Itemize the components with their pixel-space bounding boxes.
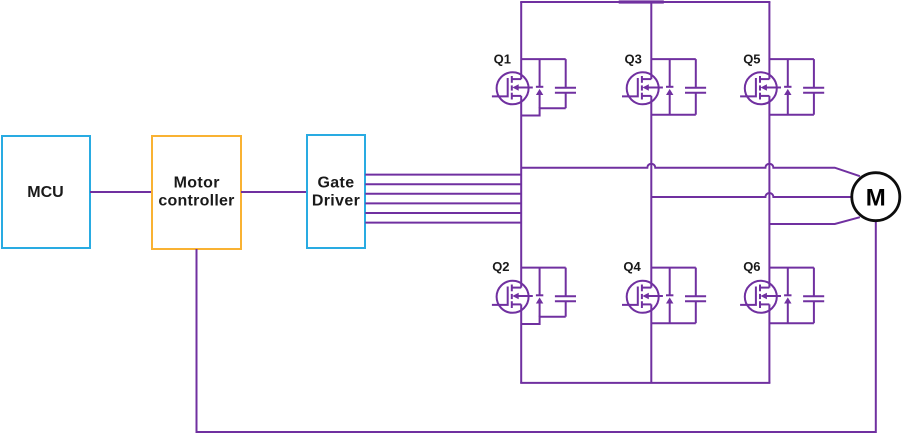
block MCU <box>2 136 90 248</box>
wire: Q2 cell bottom rail <box>521 317 566 324</box>
wire: half-bridge A vertical bus (middle, phase node A) <box>520 96 522 288</box>
svg-text:M: M <box>866 184 886 211</box>
wire Motor controller to Gate Driver <box>241 191 307 193</box>
wire: Q3 cell top rail <box>651 58 696 60</box>
svg-text:Gate: Gate <box>318 174 355 191</box>
body diode of Q3 <box>666 59 673 115</box>
body diode of Q4 <box>666 268 673 324</box>
wire: gate drive line 1 <box>365 174 521 176</box>
svg-text:Q4: Q4 <box>623 259 641 274</box>
block Motor controller <box>152 136 241 249</box>
capacitor across Q6 <box>803 268 824 324</box>
svg-text:Q1: Q1 <box>494 52 511 67</box>
svg-text:Q5: Q5 <box>743 51 760 66</box>
capacitor across Q4 <box>685 268 706 324</box>
block Gate Driver <box>307 135 365 248</box>
wire MCU to Motor controller <box>90 191 152 193</box>
capacitor across Q3 <box>685 59 706 115</box>
wire: gate drive line 2 <box>365 183 521 185</box>
wire: DC bus top rail overlap segment <box>619 0 664 3</box>
body diode of Q1 <box>536 59 543 108</box>
wire: motor feedback to Motor controller (bottom loop) <box>197 221 876 432</box>
wire: half-bridge C vertical bus (lower) <box>768 304 770 383</box>
wire: half-bridge A vertical bus (lower) <box>520 304 522 383</box>
transistor Q1 (N-MOSFET) <box>492 72 533 104</box>
body diode of Q5 <box>784 59 791 115</box>
body diode of Q6 <box>784 268 791 324</box>
transistor Q6 (N-MOSFET) <box>740 281 781 313</box>
wire: phase A from half-bridge A to motor (hops over buses B and C) <box>521 164 860 177</box>
wire: half-bridge B vertical bus (middle, phase node B) <box>650 96 652 288</box>
svg-text:Motor: Motor <box>174 174 220 191</box>
wire: DC bus top rail <box>520 1 770 3</box>
svg-text:MCU: MCU <box>27 184 63 201</box>
transistor Q3 (N-MOSFET) <box>622 72 663 104</box>
wire: DC bus bottom rail <box>520 382 770 384</box>
wire: Q5 cell bottom rail <box>769 114 814 116</box>
capacitor across Q2 <box>555 268 576 317</box>
svg-text:Q2: Q2 <box>492 259 509 274</box>
wire: Q5 cell top rail <box>769 58 814 60</box>
wire: phase B from half-bridge B to motor (hops over bus C) <box>651 193 852 197</box>
transistor Q4 (N-MOSFET) <box>622 281 663 313</box>
body diode of Q2 <box>536 268 543 317</box>
transistor Q2 (N-MOSFET) <box>492 281 533 313</box>
wire: Q6 cell bottom rail <box>769 322 814 324</box>
wire: half-bridge B vertical bus (lower) <box>650 304 652 383</box>
wire: gate drive line 6 <box>365 222 521 224</box>
svg-text:controller: controller <box>158 192 234 209</box>
wire: Q6 cell top rail <box>769 267 814 269</box>
wire: half-bridge C vertical bus (upper) <box>768 2 770 79</box>
wire: gate drive line 5 <box>365 212 521 214</box>
wire: Q1 cell top rail <box>521 58 566 60</box>
svg-text:Q6: Q6 <box>743 259 760 274</box>
wire: half-bridge C vertical bus (middle, phase node C) <box>768 96 770 288</box>
motor M <box>852 173 900 221</box>
capacitor across Q5 <box>803 59 824 115</box>
svg-text:Q3: Q3 <box>625 51 642 66</box>
wire: half-bridge B vertical bus (upper) <box>650 2 652 79</box>
wire: half-bridge A vertical bus (upper) <box>520 2 522 79</box>
capacitor across Q1 <box>555 59 576 108</box>
wire: Q4 cell top rail <box>651 267 696 269</box>
wire: Q2 cell top rail <box>521 267 566 269</box>
wire: gate drive line 3 <box>365 193 521 195</box>
transistor Q5 (N-MOSFET) <box>740 72 781 104</box>
wire: Q1 cell bottom rail <box>521 108 566 115</box>
svg-text:Driver: Driver <box>312 192 360 209</box>
wire: gate drive line 4 <box>365 202 521 204</box>
wire: Q4 cell bottom rail <box>651 322 696 324</box>
wire: Q3 cell bottom rail <box>651 114 696 116</box>
wire: phase C from half-bridge C to motor <box>769 217 860 224</box>
